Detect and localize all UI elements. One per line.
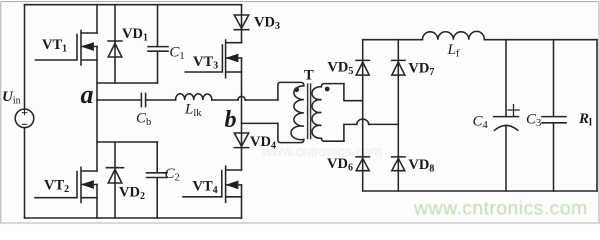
capacitor C2 xyxy=(147,142,168,218)
wire hop to primary top xyxy=(245,99,278,101)
transformer T secondary winding xyxy=(312,84,344,142)
wire leg1 bottom segment xyxy=(96,185,98,219)
diode VD2 xyxy=(107,142,124,218)
capacitor C4 leg bottom xyxy=(505,126,507,191)
capacitor C1 xyxy=(148,5,168,83)
wire hop to bridge right leg xyxy=(369,123,399,125)
transformer primary polarity dot xyxy=(294,87,299,92)
wire Llk to hop xyxy=(212,99,238,101)
svg-text:T: T xyxy=(304,68,314,84)
svg-text:b: b xyxy=(225,107,237,133)
transformer core xyxy=(308,84,311,139)
capacitor C4 leg top xyxy=(505,40,507,117)
wire leg2 top segment xyxy=(241,5,243,43)
diode VD5 xyxy=(356,60,369,75)
wire hop over bridge left leg xyxy=(357,119,369,124)
capacitor C4 plus sign xyxy=(508,105,519,116)
svg-text:a: a xyxy=(81,80,94,109)
transistor VT3 arrow xyxy=(227,54,238,62)
wire leg1 drain segment xyxy=(96,5,98,33)
source minus mark xyxy=(22,123,26,125)
wire bottom rail left bridge xyxy=(25,217,242,219)
diode VD6 xyxy=(356,157,369,171)
diode VD7 xyxy=(392,60,405,75)
wire secondary bottom lead xyxy=(344,124,357,141)
wire leg1 middle segment xyxy=(96,47,98,172)
diode VD1 xyxy=(108,5,122,83)
node a wire xyxy=(97,99,141,101)
capacitor C4 plates xyxy=(494,117,519,131)
diode VD3 xyxy=(234,15,248,30)
capacitor C3 xyxy=(542,40,566,191)
transistor VT2 arrow xyxy=(82,181,94,189)
wire output bottom rail xyxy=(363,190,597,192)
source Uin circle xyxy=(15,109,34,128)
svg-text:www.cntronics.com: www.cntronics.com xyxy=(413,198,588,220)
transformer T primary winding xyxy=(278,82,304,142)
transistor VT4 arrow xyxy=(227,181,238,189)
wire hop over leg2 xyxy=(238,96,245,100)
wire bridge left leg xyxy=(362,40,364,191)
transistor VT2 xyxy=(35,167,97,202)
diode VD8 xyxy=(392,157,405,171)
wire leg2 middle segment xyxy=(241,58,243,170)
wire left leg lower xyxy=(24,128,26,218)
node b branch wire xyxy=(242,122,278,124)
wire top rail left bridge xyxy=(25,4,242,6)
wire sub-rail lower xyxy=(97,141,158,143)
wire secondary top to bridge xyxy=(344,84,363,101)
transformer secondary polarity dot xyxy=(325,87,330,92)
wire left leg upper xyxy=(24,5,26,110)
wire bridge right leg xyxy=(397,40,399,191)
transistor VT4 xyxy=(183,166,242,202)
wire Cb to Llk xyxy=(146,99,176,101)
wire output top rail left part xyxy=(363,39,423,41)
inductor Llk xyxy=(176,94,212,100)
transistor VT3 xyxy=(185,40,241,78)
wire output top rail right part xyxy=(484,39,597,41)
inductor Lf xyxy=(422,31,484,39)
wire leg2 bottom segment xyxy=(241,185,243,218)
source plus mark xyxy=(22,110,26,114)
resistor Rl load wire xyxy=(596,40,598,191)
wire sub-rail upper xyxy=(97,82,158,84)
transistor VT1 arrow xyxy=(82,43,94,51)
diode VD4 xyxy=(234,133,248,148)
capacitor Cb xyxy=(141,93,145,106)
transistor VT1 xyxy=(36,31,98,66)
